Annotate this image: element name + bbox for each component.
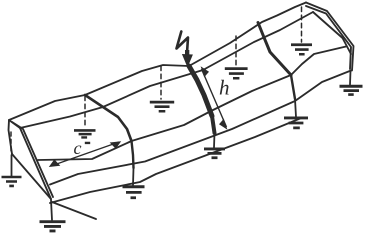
divider ring 1 wall part	[132, 141, 134, 168]
left end cap outline	[9, 120, 51, 199]
lightning arrowhead	[182, 50, 193, 68]
lightning bolt	[177, 32, 189, 54]
right end cap outline	[306, 3, 354, 71]
edge E5 bottom front	[50, 119, 300, 204]
ground Gd3	[225, 67, 248, 79]
left end cap inner line	[12, 122, 53, 197]
dashed dropper D3	[235, 36, 237, 66]
ground G3	[123, 185, 145, 199]
right end cap front edge	[313, 12, 351, 54]
ground G4	[204, 148, 225, 160]
dashed dropper D2	[160, 66, 162, 99]
dimension c arrow	[49, 141, 121, 167]
ground G6	[340, 85, 363, 96]
dashed dropper D4	[301, 7, 303, 42]
svg-text:c: c	[74, 138, 82, 158]
divider ring 3	[258, 23, 291, 76]
edge E1 top-back ridge	[9, 3, 306, 121]
divider ring 2 struck	[189, 66, 212, 116]
ground G2	[40, 220, 66, 232]
ground G5 stem	[295, 99, 296, 117]
ground G3 stem	[132, 168, 135, 185]
edge E3 front wall top	[38, 47, 346, 161]
edge E2 top-front ridge	[20, 12, 313, 128]
left end cap bottom edge	[12, 154, 51, 199]
ground G5	[284, 117, 308, 130]
wire near floor edge stub	[52, 202, 96, 219]
ground Gd2	[150, 101, 174, 113]
edge E4 front wall bottom	[50, 71, 351, 185]
ground Gd4	[291, 43, 312, 55]
divider ring 3 wall part	[291, 75, 295, 99]
left end hidden edge dashed	[10, 132, 12, 152]
divider ring 2 wall part	[212, 116, 215, 133]
ground Gd1	[74, 129, 96, 144]
svg-text:h: h	[219, 76, 230, 100]
dashed dropper D1	[84, 96, 86, 128]
left end cap back edge	[9, 120, 13, 154]
ground G1	[2, 176, 22, 188]
ground G4 stem	[213, 133, 216, 148]
divider ring 1	[85, 95, 132, 141]
dimension h arrow	[201, 66, 228, 129]
right end cap inner line	[306, 6, 351, 69]
ground G6 stem	[349, 71, 352, 85]
ground G2 stem	[51, 200, 52, 220]
ground G1 stem	[11, 155, 13, 176]
